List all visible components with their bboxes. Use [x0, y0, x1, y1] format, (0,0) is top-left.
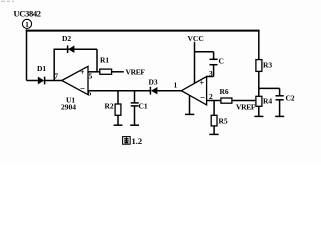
wire op-amp U2 ground drop	[189, 96, 191, 114]
svg-text:7: 7	[54, 72, 58, 81]
svg-text:−: −	[200, 93, 205, 103]
wire branch to C2	[259, 87, 280, 89]
svg-text:R3: R3	[263, 61, 272, 70]
svg-text:D3: D3	[149, 78, 158, 87]
wire right rail down to R3	[258, 31, 260, 60]
svg-text:D1: D1	[37, 64, 46, 73]
capacitor C1	[131, 102, 148, 111]
diode D2	[62, 34, 74, 53]
wire R2 to ground	[117, 115, 119, 124]
wire R6 to VREF node	[232, 100, 259, 102]
svg-text:2904: 2904	[61, 103, 76, 112]
svg-text:VREF: VREF	[126, 68, 146, 77]
resistor R1	[100, 56, 112, 75]
ground below R5	[209, 133, 218, 135]
svg-text:+: +	[200, 79, 205, 88]
ground below R4	[254, 115, 263, 117]
svg-text:C2: C2	[286, 94, 295, 103]
pin 3 stub	[207, 76, 214, 78]
scan artifact dashes	[1, 0, 14, 2]
node pin1 of UC3842 (circled 1)	[22, 19, 31, 29]
resistor R3	[256, 60, 273, 72]
wire D1 cathode to op-amp U1 output	[45, 80, 62, 82]
wire R1 to VREF	[112, 71, 124, 73]
wire C1 drop	[134, 91, 136, 103]
ground below R2	[114, 124, 123, 126]
op-amp U1	[62, 66, 88, 94]
op-amp U2	[181, 77, 206, 105]
svg-text:+: +	[80, 68, 85, 77]
svg-text:1: 1	[174, 81, 178, 90]
svg-text:R5: R5	[219, 117, 228, 126]
caption 图1.2	[123, 136, 143, 146]
wire VCC branch to C	[195, 51, 214, 53]
svg-text:1: 1	[25, 20, 29, 29]
wire top rail from pin1 to R3	[26, 30, 260, 32]
svg-text:R2: R2	[105, 102, 114, 111]
ground below C1	[130, 124, 139, 126]
wire C2 to ground	[279, 100, 281, 116]
resistor R2	[105, 102, 121, 116]
wire R3 to R4	[258, 71, 260, 96]
diode D1	[37, 64, 46, 84]
U1 designator 2904	[61, 96, 76, 112]
svg-text:2: 2	[209, 92, 213, 101]
wire left vertical drop from pin1	[26, 29, 28, 80]
svg-text:VREF: VREF	[236, 103, 256, 112]
svg-text:R1: R1	[100, 56, 109, 65]
resistor R6	[220, 87, 232, 103]
wire pin6 bus to D3	[88, 90, 150, 92]
diode D3	[149, 78, 158, 95]
capacitor C	[210, 52, 224, 77]
wire R2 drop	[117, 91, 119, 104]
wire R5 to ground	[213, 126, 215, 134]
wire pin5 stub to R1	[88, 71, 100, 73]
svg-text:C: C	[219, 57, 224, 66]
resistor R5	[211, 115, 228, 126]
svg-text:D2: D2	[62, 34, 71, 43]
svg-text:VCC: VCC	[188, 34, 204, 43]
wire R5 drop	[213, 101, 215, 116]
svg-text:C1: C1	[139, 102, 148, 111]
svg-text:R4: R4	[263, 97, 272, 106]
wire pin2 stub to R6	[207, 100, 221, 102]
svg-text:5: 5	[89, 72, 93, 81]
svg-text:R6: R6	[220, 87, 229, 96]
resistor R4	[256, 96, 273, 106]
wire C1 to ground	[134, 106, 136, 125]
svg-text:UC3842: UC3842	[14, 8, 41, 18]
wire into D1 anode	[27, 80, 38, 82]
wire R4 to ground	[258, 106, 260, 116]
svg-text:3: 3	[209, 69, 213, 78]
svg-text:1.2: 1.2	[132, 136, 143, 146]
capacitor C2	[276, 88, 295, 102]
wire VCC vertical to op-amp power	[194, 42, 196, 83]
wire D3 to op-amp U2 output	[157, 90, 181, 92]
wire feedback top segment	[54, 48, 98, 50]
ground below C2	[275, 115, 284, 117]
wire feedback right vertical to pin5 node	[96, 49, 98, 72]
wire feedback left vertical	[53, 49, 55, 80]
svg-text:6: 6	[88, 89, 92, 98]
svg-text:−: −	[80, 84, 85, 94]
ground below U2	[185, 113, 194, 115]
